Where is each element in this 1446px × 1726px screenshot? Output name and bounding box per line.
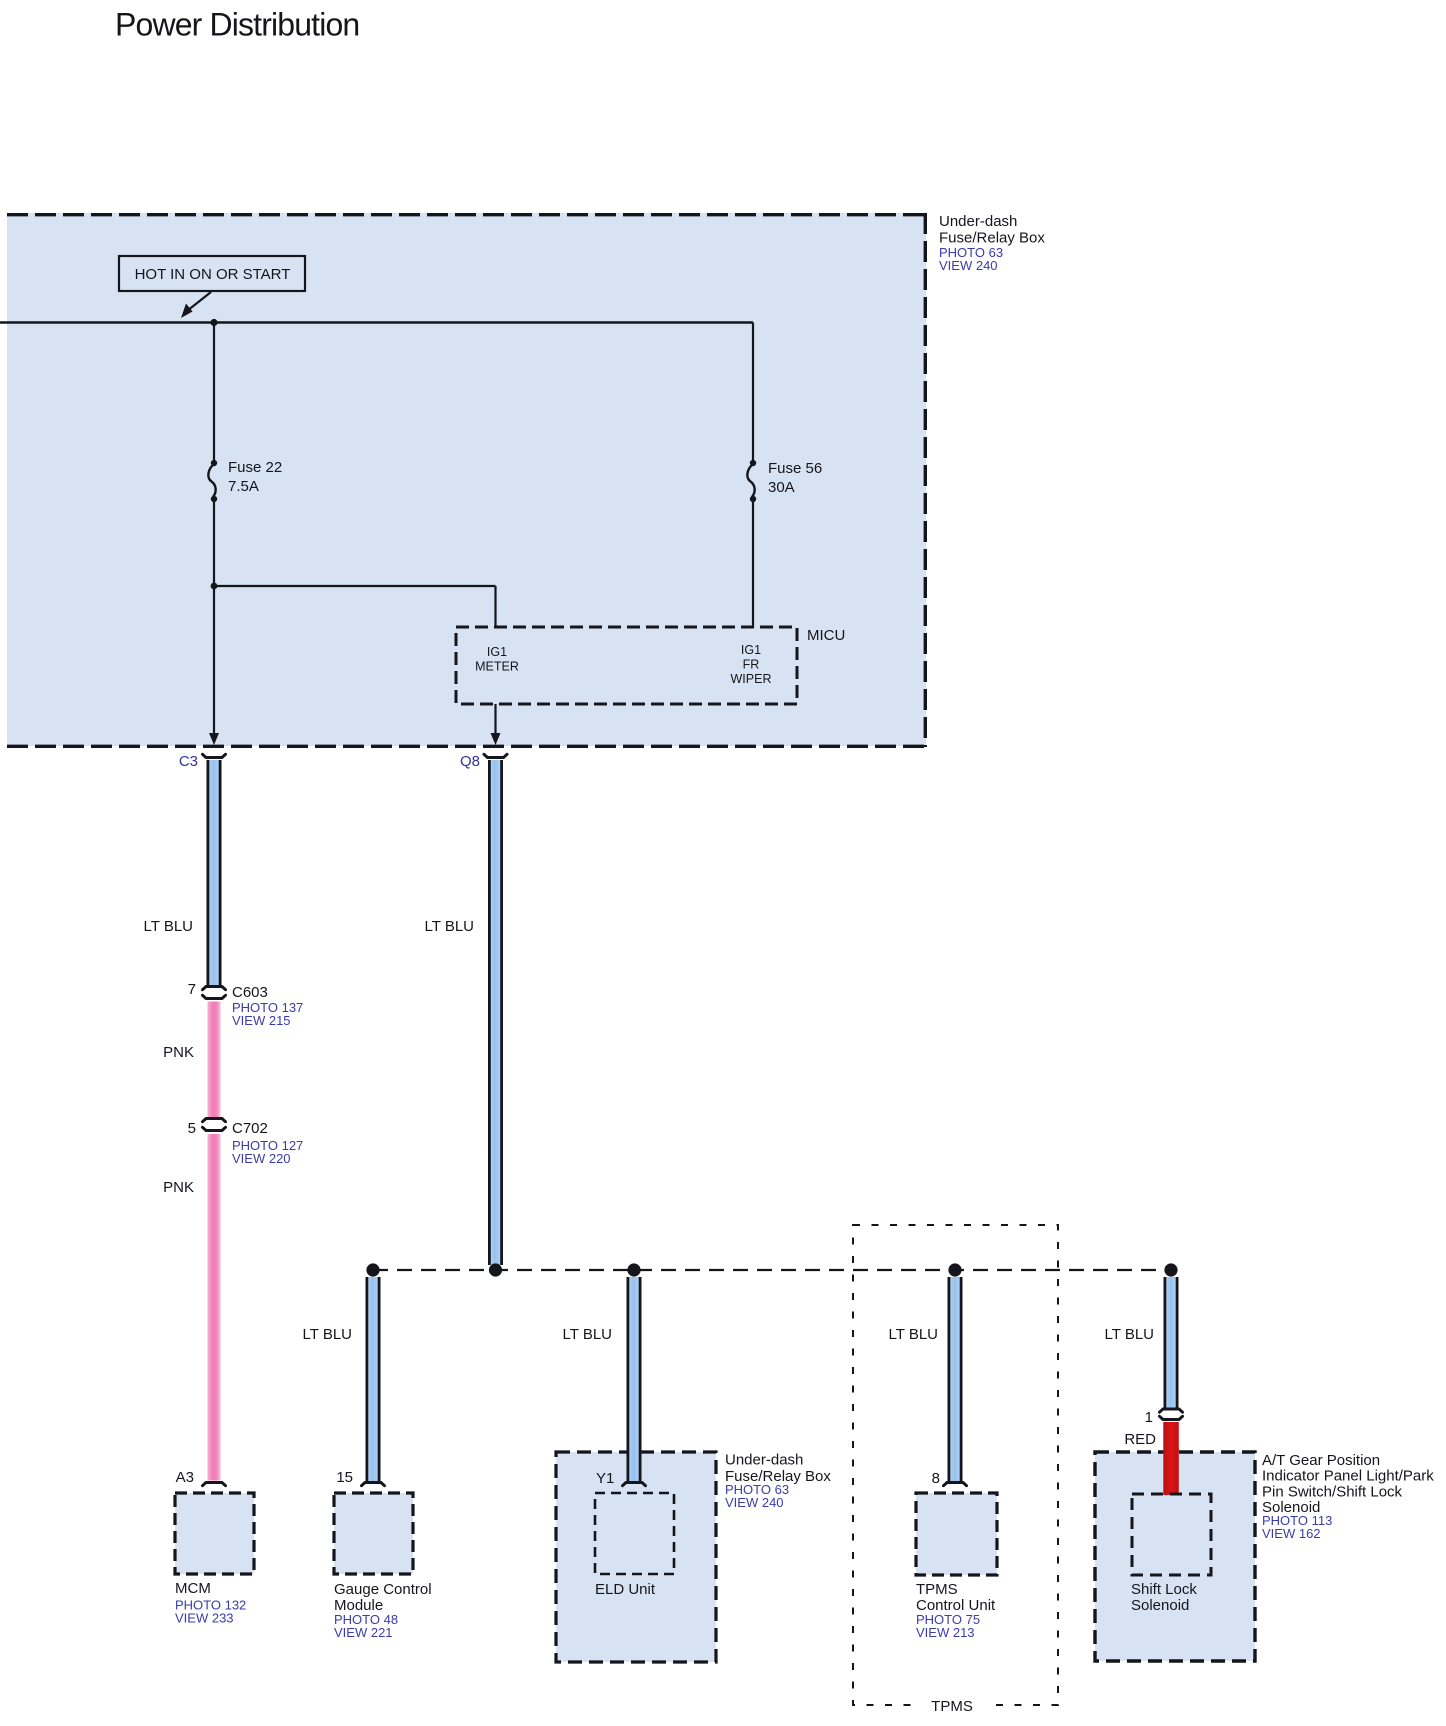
A/T gear position label	[1262, 1452, 1434, 1541]
MICU box	[456, 627, 845, 704]
connector cap 8	[944, 1483, 967, 1486]
svg-text:5: 5	[188, 1120, 196, 1137]
arrow into C3	[209, 733, 219, 745]
connector C603	[232, 984, 303, 1028]
svg-text:Under-dash: Under-dash	[725, 1452, 803, 1469]
svg-text:C702: C702	[232, 1120, 268, 1137]
connector cap C603 lower	[203, 995, 226, 998]
wire RED over box	[1163, 1449, 1179, 1495]
HOT IN ON OR START box	[119, 256, 305, 291]
wire PNK (upper)	[208, 1002, 221, 1118]
wire: right branch down to fuse 56	[752, 323, 754, 463]
node E (shift lock branch)	[1164, 1263, 1177, 1276]
svg-text:8: 8	[932, 1470, 940, 1487]
svg-text:IG1: IG1	[487, 645, 507, 659]
node C (ELD branch)	[627, 1263, 640, 1276]
connector cap A3	[203, 1483, 226, 1486]
pin IG1 METER	[475, 645, 519, 674]
svg-text:WIPER: WIPER	[731, 672, 772, 686]
svg-text:15: 15	[336, 1469, 353, 1486]
svg-text:LT BLU: LT BLU	[425, 918, 474, 935]
under-dash bottom labels	[725, 1452, 831, 1511]
under-dash fuse/relay box label	[939, 213, 1045, 273]
svg-text:RED: RED	[1124, 1431, 1156, 1448]
svg-text:Fuse 56: Fuse 56	[768, 460, 822, 477]
TPMS control unit box	[916, 1493, 997, 1640]
svg-text:ELD Unit: ELD Unit	[595, 1581, 656, 1598]
wire LT BLU (to shift lock)	[1164, 1277, 1179, 1409]
svg-text:VIEW 162: VIEW 162	[1262, 1526, 1321, 1541]
svg-text:Solenoid: Solenoid	[1131, 1597, 1189, 1614]
svg-text:TPMS: TPMS	[916, 1581, 958, 1598]
svg-text:Q8: Q8	[460, 753, 480, 770]
svg-text:30A: 30A	[768, 479, 795, 496]
wire LT BLU (to ELD)	[627, 1277, 642, 1481]
wire LT BLU (to gauge)	[366, 1277, 381, 1481]
under-dash fuse/relay box (top)	[7, 213, 927, 747]
svg-text:Gauge Control: Gauge Control	[334, 1581, 432, 1598]
svg-text:VIEW 221: VIEW 221	[334, 1625, 393, 1640]
svg-text:VIEW 215: VIEW 215	[232, 1013, 291, 1028]
wire: fuse 56 down to MICU	[752, 499, 754, 628]
connector cap C603 upper	[203, 987, 226, 990]
wire: branch to IG1 METER	[214, 585, 496, 587]
svg-text:A/T Gear Position: A/T Gear Position	[1262, 1452, 1380, 1469]
svg-text:C3: C3	[179, 753, 198, 770]
wire LT BLU (Q8)	[488, 760, 503, 1265]
shift lock solenoid inner box	[1131, 1494, 1211, 1614]
connector cap C702 upper	[203, 1119, 226, 1122]
svg-text:VIEW 233: VIEW 233	[175, 1611, 234, 1626]
shift lock solenoid outer box	[1095, 1452, 1255, 1661]
svg-text:PNK: PNK	[163, 1044, 194, 1061]
fuse F56 30A	[747, 460, 822, 502]
svg-text:Fuse/Relay Box: Fuse/Relay Box	[939, 230, 1045, 247]
node D (TPMS branch)	[948, 1263, 961, 1276]
pin IG1 FR WIPER	[731, 643, 772, 686]
svg-text:Pin Switch/Shift Lock: Pin Switch/Shift Lock	[1262, 1483, 1403, 1500]
svg-text:FR: FR	[743, 658, 760, 672]
connector cap 15	[362, 1483, 385, 1486]
arrow into Q8	[491, 733, 501, 745]
svg-text:A3: A3	[176, 1469, 194, 1486]
arrow from HOT box to wire	[181, 292, 211, 318]
svg-text:MICU: MICU	[807, 627, 845, 644]
TPMS region label	[918, 1696, 988, 1715]
wire LT BLU (to TPMS)	[948, 1277, 963, 1481]
node B (Q8 feed)	[489, 1263, 502, 1276]
ELD unit box	[595, 1493, 674, 1598]
svg-text:1: 1	[1145, 1409, 1153, 1426]
connector cap Y1	[623, 1483, 646, 1486]
svg-text:VIEW 240: VIEW 240	[939, 258, 998, 273]
wire: MICU output	[494, 704, 496, 742]
svg-text:LT BLU: LT BLU	[303, 1326, 352, 1343]
connector cap 1 upper	[1160, 1409, 1183, 1412]
gauge control module box	[334, 1493, 432, 1640]
svg-text:IG1: IG1	[741, 643, 761, 657]
svg-text:VIEW 220: VIEW 220	[232, 1151, 291, 1166]
svg-text:MCM: MCM	[175, 1580, 211, 1597]
svg-text:Shift Lock: Shift Lock	[1131, 1581, 1197, 1598]
svg-text:7: 7	[188, 981, 196, 998]
wire: main horizontal bus	[0, 321, 753, 323]
svg-text:LT BLU: LT BLU	[1105, 1326, 1154, 1343]
svg-text:C603: C603	[232, 984, 268, 1001]
svg-text:Under-dash: Under-dash	[939, 213, 1017, 230]
svg-text:LT BLU: LT BLU	[889, 1326, 938, 1343]
svg-text:7.5A: 7.5A	[228, 478, 259, 495]
connector cap 1 lower	[1160, 1416, 1183, 1419]
svg-text:Indicator Panel Light/Park: Indicator Panel Light/Park	[1262, 1468, 1434, 1485]
svg-text:LT BLU: LT BLU	[563, 1326, 612, 1343]
wire: left branch down to fuse 22	[213, 323, 215, 463]
svg-text:Power Distribution: Power Distribution	[115, 7, 359, 43]
svg-text:HOT IN ON OR START: HOT IN ON OR START	[135, 266, 291, 283]
svg-text:Fuse 22: Fuse 22	[228, 459, 282, 476]
connector cap Q8	[484, 754, 507, 757]
svg-text:LT BLU: LT BLU	[144, 918, 193, 935]
TPMS dashed region	[853, 1225, 1058, 1705]
wire: fuse 22 down	[213, 499, 215, 742]
svg-text:VIEW 240: VIEW 240	[725, 1495, 784, 1510]
connector cap C702 lower	[203, 1127, 226, 1130]
MCM box	[175, 1493, 254, 1626]
wire PNK (lower)	[208, 1134, 221, 1481]
svg-text:TPMS: TPMS	[931, 1698, 973, 1715]
node A (gauge branch)	[366, 1263, 379, 1276]
wire RED	[1163, 1422, 1179, 1495]
wire into ELD over box	[627, 1449, 642, 1481]
node: branch junction	[211, 583, 218, 590]
svg-text:PNK: PNK	[163, 1179, 194, 1196]
svg-text:METER: METER	[475, 660, 519, 674]
svg-text:VIEW 213: VIEW 213	[916, 1625, 975, 1640]
wire LT BLU (C3)	[207, 760, 222, 986]
under-dash fuse/relay box (bottom)	[556, 1452, 716, 1662]
node: bus junction	[210, 319, 217, 326]
svg-text:Y1: Y1	[596, 1470, 614, 1487]
connector C702	[232, 1120, 303, 1166]
connector cap C3	[203, 754, 226, 757]
junction dashed bus	[373, 1269, 1171, 1271]
fuse F22 7.5A	[208, 459, 282, 502]
